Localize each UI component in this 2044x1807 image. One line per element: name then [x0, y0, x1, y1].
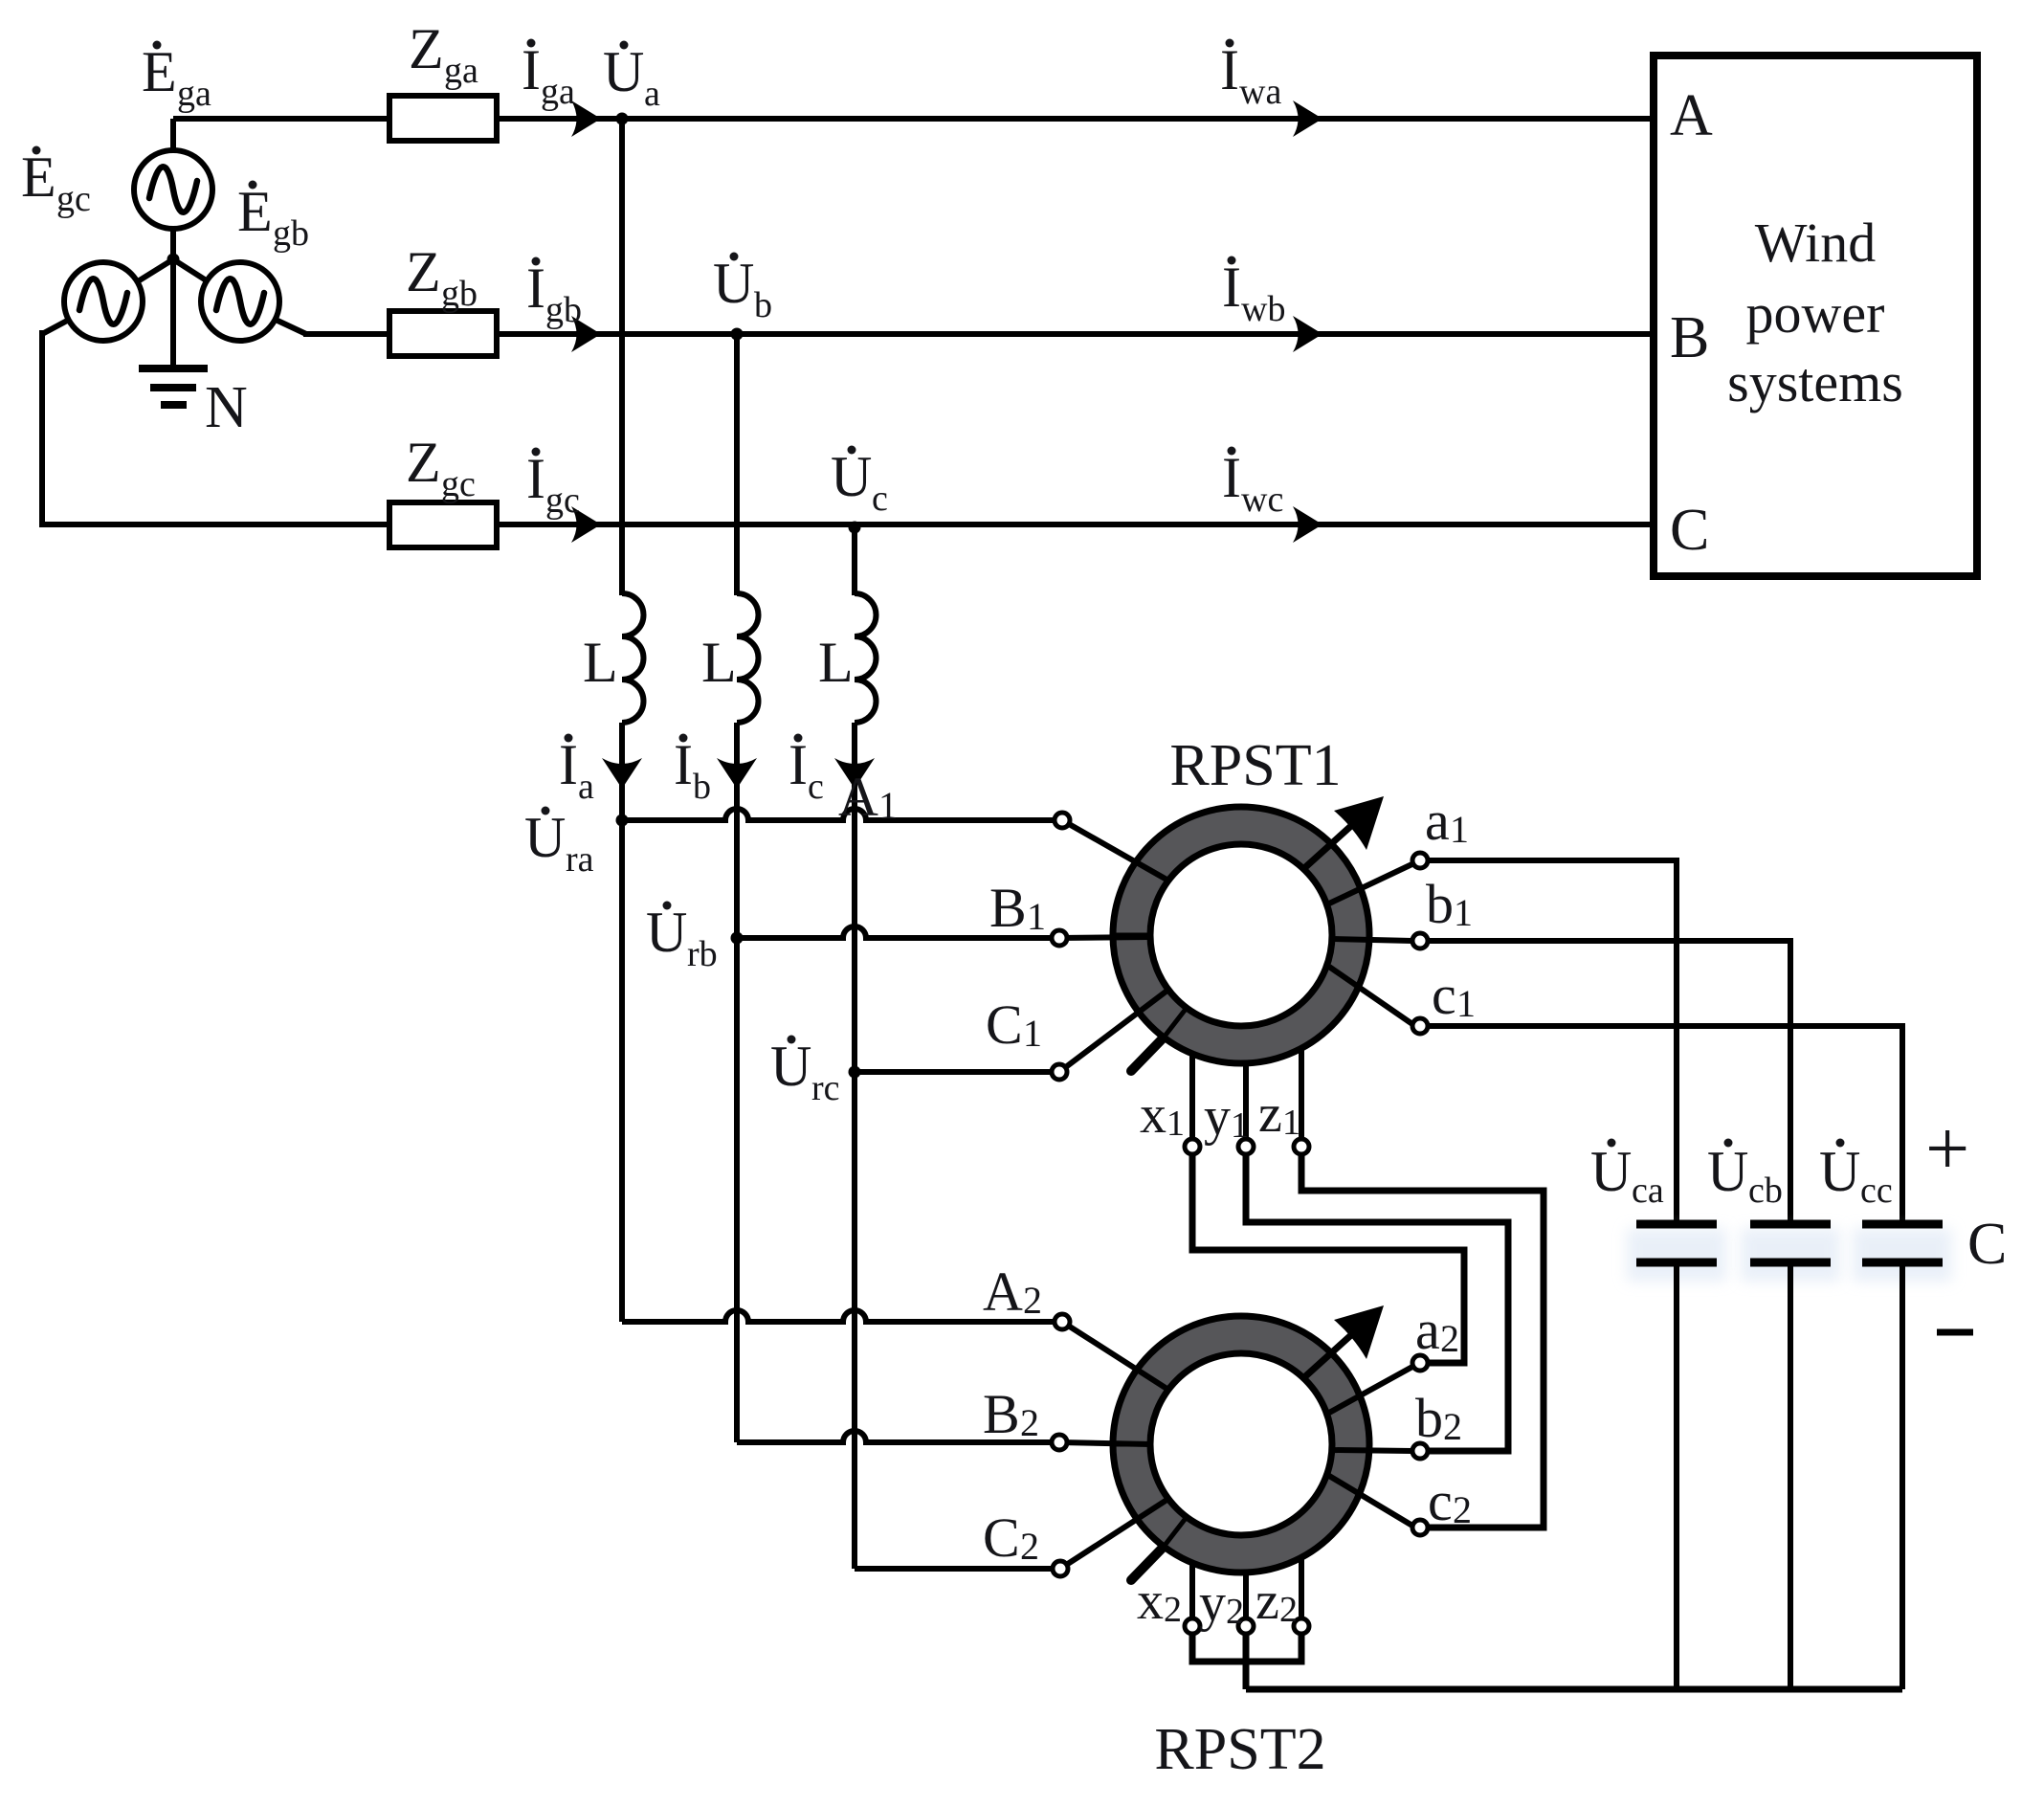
svg-text:A: A	[983, 1260, 1023, 1323]
wind power systems block	[1654, 56, 1977, 576]
wire: branch c down to RPST2 terminal C2	[855, 1072, 1053, 1569]
label Ua	[603, 40, 660, 114]
svg-text:U: U	[1590, 1140, 1632, 1203]
label x1	[1140, 1085, 1185, 1145]
label I_c	[789, 733, 824, 807]
wire: inductor a to node Ura	[619, 723, 625, 820]
svg-text:A: A	[838, 766, 878, 828]
inductor L (phase c reactor)	[855, 593, 877, 723]
wire: terminal B1 into RPST1 winding	[1059, 937, 1150, 938]
svg-text:cc: cc	[1860, 1171, 1893, 1211]
label I_gb	[526, 257, 582, 330]
RPST2 adjustment arrow shaft	[1303, 1325, 1363, 1378]
label I_ga	[522, 38, 575, 112]
svg-text:b: b	[693, 767, 711, 807]
svg-text:gb: gb	[545, 290, 582, 330]
terminal b2	[1412, 1443, 1428, 1459]
svg-text:RPST2: RPST2	[1154, 1717, 1325, 1782]
svg-text:2: 2	[1453, 1488, 1472, 1531]
node Urb	[731, 932, 744, 945]
label a1	[1425, 790, 1469, 852]
label minus (polarity)	[1937, 1329, 1973, 1336]
svg-text:b: b	[754, 285, 772, 325]
svg-text:I: I	[1222, 446, 1241, 509]
label U_ca	[1590, 1139, 1664, 1212]
label I_wb	[1222, 256, 1285, 329]
svg-text:E: E	[21, 145, 56, 209]
svg-text:gc: gc	[441, 464, 476, 504]
svg-text:c: c	[808, 767, 824, 807]
label A1	[838, 766, 898, 828]
wire: branch a down to RPST2 terminal A2 (hops over b,c)	[622, 820, 1055, 1322]
svg-text:gc: gc	[56, 179, 91, 219]
label I_wa	[1220, 38, 1281, 112]
svg-text:2: 2	[1443, 1405, 1462, 1448]
svg-text:rb: rb	[687, 934, 718, 974]
svg-text:ca: ca	[1632, 1171, 1664, 1211]
svg-text:I: I	[1220, 38, 1239, 101]
svg-text:c: c	[1428, 1470, 1453, 1532]
terminal c2	[1412, 1520, 1428, 1535]
wire: RPST2 winding to terminal a2	[1329, 1367, 1412, 1413]
svg-text:C: C	[986, 993, 1023, 1056]
label b1	[1426, 873, 1473, 935]
label U_cb	[1707, 1139, 1783, 1212]
RPST2 adjustment arrow head	[1334, 1305, 1384, 1359]
svg-text:a: a	[644, 74, 660, 114]
label B2	[983, 1383, 1039, 1445]
wire: capacitor U_ca to return bus	[1674, 1262, 1679, 1689]
terminal A1	[1055, 813, 1070, 828]
label U_cc	[1819, 1139, 1893, 1212]
label C1	[986, 993, 1042, 1056]
terminal b1	[1412, 933, 1428, 948]
svg-text:I: I	[522, 38, 541, 101]
label z1	[1258, 1084, 1300, 1144]
label Z_gb	[406, 240, 478, 314]
svg-text:I: I	[559, 733, 578, 796]
wire: RPST2 lead to terminal x2	[1189, 1563, 1195, 1618]
voltage source E_gc (phase c AC source)	[64, 262, 143, 341]
wire: E_gb to Z_gb (phase b)	[276, 320, 389, 334]
svg-text:Wind: Wind	[1755, 212, 1877, 274]
wire: z1 down-right to terminal c2	[1301, 1154, 1544, 1528]
terminal a2	[1412, 1355, 1428, 1371]
svg-text:a: a	[578, 767, 594, 807]
label a2	[1415, 1299, 1459, 1361]
terminal y1	[1238, 1139, 1254, 1154]
label A2	[983, 1260, 1042, 1323]
capacitor C plates (U_ca)	[1636, 1224, 1717, 1262]
label c2	[1428, 1470, 1472, 1532]
capacitor C (U_cc) glow	[1853, 1228, 1952, 1282]
wire: y1 down-right to terminal b2	[1246, 1154, 1508, 1451]
svg-text:2: 2	[1226, 1592, 1244, 1632]
svg-text:2: 2	[1020, 1525, 1039, 1568]
svg-text:c: c	[872, 479, 888, 519]
resistor Z_gc (grid impedance)	[389, 502, 497, 547]
RPST2 toroidal core	[1113, 1316, 1369, 1573]
node Urc	[849, 1066, 861, 1079]
terminal B2	[1052, 1435, 1067, 1450]
svg-text:N: N	[205, 375, 248, 440]
label Ura	[524, 806, 594, 880]
RPST1 adjustment arrow head	[1334, 796, 1384, 850]
current arrow I_wb	[1293, 316, 1322, 352]
capacitor C plates (U_cb)	[1750, 1224, 1831, 1262]
svg-text:U: U	[1819, 1140, 1860, 1203]
svg-text:1: 1	[1454, 891, 1473, 934]
node Ua	[616, 113, 629, 125]
wire: capacitor U_cc to return bus	[1900, 1262, 1905, 1689]
resistor Z_gb (grid impedance)	[389, 311, 497, 356]
RPST2 sector division left	[1113, 1442, 1150, 1447]
wire: RPST2 lead to terminal y2	[1243, 1573, 1249, 1618]
svg-text:1: 1	[1456, 982, 1476, 1025]
svg-text:B: B	[1670, 305, 1709, 370]
svg-text:U: U	[603, 40, 644, 103]
svg-text:I: I	[674, 733, 693, 796]
svg-text:L: L	[818, 631, 854, 694]
terminal x2	[1185, 1618, 1200, 1634]
wire: RPST2 winding to terminal b2	[1332, 1450, 1412, 1451]
svg-text:1: 1	[878, 784, 898, 827]
svg-text:C: C	[983, 1506, 1020, 1569]
svg-text:ra: ra	[566, 839, 594, 880]
wire: capacitor U_cb to return bus	[1788, 1262, 1793, 1689]
current arrow I_a	[602, 758, 642, 789]
svg-text:b: b	[1426, 873, 1454, 935]
svg-text:c: c	[1432, 964, 1456, 1026]
svg-text:1: 1	[1027, 895, 1046, 938]
terminal y2	[1238, 1618, 1254, 1634]
svg-text:C: C	[1670, 498, 1709, 563]
svg-text:1: 1	[1166, 1104, 1185, 1144]
svg-text:ga: ga	[541, 72, 575, 112]
wire: E_ga to Z_ga (phase a)	[173, 116, 389, 122]
svg-text:U: U	[713, 252, 754, 315]
svg-text:wc: wc	[1241, 480, 1283, 520]
inductor L (phase b reactor)	[737, 593, 759, 723]
terminal a1	[1412, 853, 1428, 868]
current arrow I_gb	[571, 316, 601, 352]
svg-text:C: C	[1967, 1212, 2007, 1277]
svg-text:2: 2	[1023, 1279, 1042, 1322]
wire: RPST1 lead to terminal y1	[1243, 1063, 1249, 1139]
RPST2 adjustment arrow tail stub	[1131, 1548, 1163, 1580]
label I_gc	[526, 447, 580, 521]
label y1	[1204, 1087, 1249, 1147]
terminal C2	[1053, 1561, 1068, 1576]
RPST2 sector division lower-left	[1164, 1517, 1187, 1547]
wire: Z_gb to wind-power terminal B	[497, 331, 1654, 337]
wire: node Uc down to inductor	[852, 527, 857, 595]
label Wind power systems	[1727, 212, 1903, 413]
wire: E_gc down and right to Z_gc (phase c)	[42, 320, 389, 527]
RPST1 adjustment arrow shaft	[1303, 815, 1363, 869]
svg-text:L: L	[583, 631, 618, 694]
svg-text:systems: systems	[1727, 351, 1903, 413]
wire: terminal b1 to capacitor U_cb column	[1428, 938, 1790, 1220]
wire: node Urb to RPST1 terminal B1 (hops over c)	[737, 926, 1052, 938]
svg-text:U: U	[831, 445, 872, 508]
svg-text:a: a	[1425, 790, 1450, 852]
wire: terminal A2 into RPST2 winding	[1062, 1322, 1168, 1390]
svg-text:E: E	[142, 40, 177, 103]
current arrow I_wc	[1293, 506, 1322, 543]
svg-text:2: 2	[1279, 1590, 1298, 1630]
svg-text:Z: Z	[409, 17, 444, 80]
node Ura	[616, 814, 629, 827]
current arrow I_b	[717, 758, 757, 789]
terminal C1	[1052, 1064, 1067, 1080]
svg-text:1: 1	[1231, 1105, 1249, 1146]
wire: inductor c down to node Urc	[852, 723, 857, 1072]
svg-text:1: 1	[1450, 808, 1469, 851]
svg-text:B: B	[983, 1383, 1020, 1445]
svg-text:1: 1	[1282, 1103, 1300, 1143]
resistor Z_ga (grid impedance)	[389, 96, 497, 141]
current arrow I_gc	[571, 506, 601, 543]
svg-text:2: 2	[1020, 1401, 1039, 1444]
wire: node Ura to RPST1 terminal A1 (hops over b,c)	[622, 809, 1055, 820]
wire: RPST1 winding to terminal a1	[1329, 860, 1420, 903]
svg-text:wa: wa	[1239, 72, 1281, 112]
wire: Z_gc to wind-power terminal C	[497, 522, 1654, 527]
wire: star point to E_gc	[138, 259, 173, 281]
svg-text:B: B	[989, 877, 1027, 939]
svg-text:U: U	[646, 901, 687, 964]
wire: E_ga bottom lead to star point	[170, 229, 176, 262]
svg-text:ga: ga	[444, 51, 478, 91]
wire: E_ga top lead to phase-a line	[170, 119, 176, 150]
wire: terminal c1 to capacitor U_cc column	[1428, 1023, 1902, 1220]
label Urc	[770, 1035, 840, 1108]
svg-text:z: z	[1255, 1572, 1279, 1631]
svg-text:I: I	[789, 733, 808, 796]
RPST1 sector division lower-left	[1164, 1008, 1187, 1037]
svg-text:I: I	[526, 257, 545, 320]
label B1	[989, 877, 1046, 939]
terminal x1	[1185, 1139, 1200, 1154]
svg-text:2: 2	[1440, 1317, 1459, 1360]
RPST1 sector division left	[1113, 933, 1150, 938]
wire: common return bus to capacitor bank	[1246, 1686, 1902, 1693]
wire: star point down to ground	[170, 259, 176, 368]
wire: node Ua to wind-power terminal A	[622, 116, 1654, 122]
svg-text:Z: Z	[406, 431, 441, 494]
node: star point junction	[167, 254, 180, 266]
svg-text:2: 2	[1164, 1590, 1182, 1630]
label E_ga	[142, 40, 211, 114]
svg-text:b: b	[1415, 1387, 1443, 1449]
capacitor C (U_cb) glow	[1741, 1228, 1840, 1282]
svg-text:A: A	[1670, 83, 1713, 148]
svg-text:y: y	[1204, 1087, 1231, 1147]
RPST1 toroidal core	[1113, 807, 1369, 1063]
svg-text:+: +	[1925, 1104, 1969, 1192]
wire: terminal B2 into RPST2 winding	[1059, 1442, 1150, 1444]
label z2	[1255, 1572, 1298, 1631]
voltage source E_ga (phase a AC source)	[134, 150, 212, 229]
svg-text:gc: gc	[545, 480, 580, 521]
current arrow I_wa	[1293, 100, 1322, 137]
wire: terminal C1 into RPST1 winding	[1059, 990, 1168, 1072]
label I_b	[674, 733, 711, 807]
terminal B1	[1052, 930, 1067, 946]
svg-text:U: U	[524, 806, 566, 869]
svg-text:x: x	[1137, 1572, 1164, 1631]
svg-text:cb: cb	[1748, 1171, 1783, 1211]
wire: RPST2 lead to terminal z2	[1299, 1557, 1304, 1618]
svg-text:U: U	[1707, 1140, 1748, 1203]
label Z_gc	[406, 431, 476, 504]
label E_gb	[237, 180, 309, 254]
terminal z2	[1294, 1618, 1309, 1634]
label E_gc	[21, 145, 91, 219]
wire: terminal a1 to capacitor U_ca column	[1428, 858, 1677, 1220]
wire: RPST1 winding to terminal c1	[1329, 967, 1412, 1024]
wire: star point to E_gb	[173, 259, 208, 281]
svg-text:L: L	[701, 631, 737, 694]
wire: inductor b down to node Urb	[734, 723, 740, 938]
inductor L (phase a reactor)	[622, 593, 644, 723]
terminal c1	[1412, 1018, 1428, 1034]
label Z_ga	[409, 17, 478, 91]
voltage source E_gb (phase b AC source)	[201, 262, 279, 341]
svg-text:U: U	[770, 1035, 811, 1098]
wire: Z_ga to node Ua	[497, 116, 622, 122]
label c1	[1432, 964, 1476, 1026]
label y2	[1199, 1573, 1244, 1633]
current arrow I_ga	[571, 100, 601, 137]
wire: short-circuit bus x2-z2	[1192, 1634, 1301, 1662]
svg-text:y: y	[1199, 1573, 1226, 1633]
node Uc	[849, 522, 861, 534]
svg-text:E: E	[237, 180, 273, 243]
wire: RPST1 lead to terminal z1	[1299, 1048, 1304, 1139]
svg-text:1: 1	[1023, 1012, 1042, 1055]
wire: y2 down to common return bus	[1243, 1634, 1250, 1689]
wire: node Urc to RPST1 terminal C1	[855, 1069, 1052, 1075]
current arrow I_c	[834, 758, 875, 789]
wire: branch b down to RPST2 terminal B2 (hops over c)	[737, 938, 1052, 1442]
svg-text:a: a	[1415, 1299, 1440, 1361]
svg-text:I: I	[1222, 256, 1241, 319]
wire: node Ub down to inductor	[734, 334, 740, 595]
svg-text:z: z	[1258, 1084, 1282, 1144]
svg-text:gb: gb	[273, 213, 309, 254]
wire: node Ua down to inductor	[619, 119, 625, 595]
svg-text:RPST1: RPST1	[1169, 733, 1341, 798]
label I_a	[559, 733, 594, 807]
capacitor C plates (U_cc)	[1862, 1224, 1943, 1262]
svg-text:ga: ga	[177, 74, 211, 114]
terminal z1	[1294, 1139, 1309, 1154]
label C2	[983, 1506, 1039, 1569]
svg-text:gb: gb	[441, 274, 478, 314]
wire: x1 down-right to terminal a2	[1192, 1154, 1464, 1363]
svg-text:power: power	[1746, 282, 1885, 345]
svg-text:x: x	[1140, 1085, 1166, 1145]
svg-text:Z: Z	[406, 240, 441, 303]
node Ub	[731, 328, 744, 341]
label Uc	[831, 445, 888, 519]
terminal A2	[1055, 1314, 1070, 1329]
label x2	[1137, 1572, 1182, 1631]
svg-text:wb: wb	[1241, 289, 1285, 329]
wire: terminal A1 into RPST1 winding	[1062, 820, 1168, 881]
wire: terminal C2 into RPST2 winding	[1060, 1499, 1168, 1569]
svg-text:I: I	[526, 447, 545, 510]
wire: RPST1 winding to terminal b1	[1332, 939, 1412, 941]
label Ub	[713, 252, 772, 325]
RPST1 adjustment arrow tail stub	[1131, 1038, 1163, 1071]
wire: RPST2 winding to terminal c2	[1329, 1476, 1412, 1526]
svg-text:rc: rc	[811, 1068, 840, 1108]
label b2	[1415, 1387, 1462, 1449]
label I_wc	[1222, 446, 1283, 520]
ground symbol (neutral N)	[139, 368, 208, 405]
wire: RPST1 lead to terminal x1	[1189, 1054, 1195, 1139]
label Urb	[646, 901, 718, 974]
